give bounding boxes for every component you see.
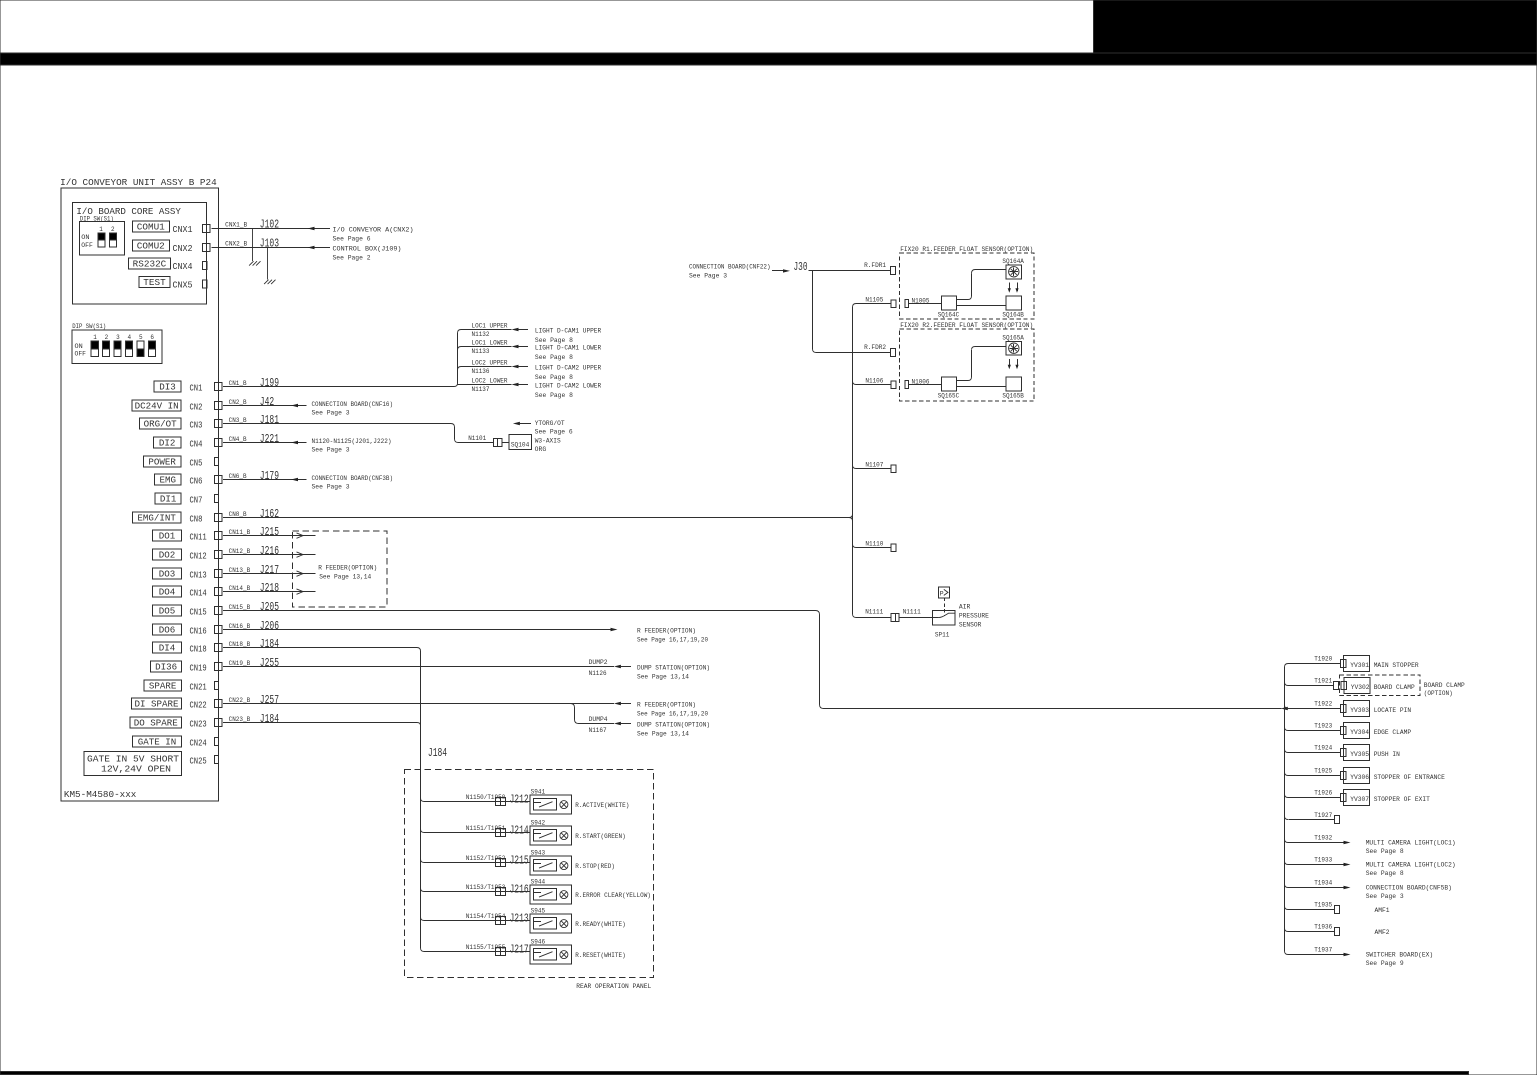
connector N1005 (905, 300, 909, 308)
svg-text:J218: J218 (260, 582, 279, 595)
sensor SQ104 box (509, 435, 532, 450)
svg-text:CN8_B: CN8_B (229, 511, 247, 518)
svg-text:DUMP4: DUMP4 (589, 716, 608, 723)
connector CN7 (214, 495, 218, 503)
connector N1111 (891, 614, 899, 622)
wire N1105 branch (853, 304, 857, 308)
svg-text:J216: J216 (510, 883, 529, 896)
dip switch S1 (2-pos) outline (80, 222, 125, 255)
svg-text:N1110: N1110 (865, 541, 883, 548)
sensor SQ164A symbol (1006, 265, 1021, 279)
svg-text:J214: J214 (510, 824, 529, 837)
svg-text:CN14: CN14 (190, 587, 208, 598)
connector N1154/T1954 (496, 917, 506, 925)
svg-text:ON: ON (81, 234, 90, 241)
label box DI4 (CN18) (152, 642, 181, 653)
dashed box YV302 option (1339, 675, 1420, 696)
connector N1110 (891, 544, 896, 552)
arrow J206 (611, 628, 618, 631)
label box ORG/OT (CN3) (139, 418, 181, 429)
svg-text:J212: J212 (510, 793, 529, 806)
svg-text:R.STOP(RED): R.STOP(RED) (575, 863, 615, 870)
svg-text:OFF: OFF (75, 350, 87, 357)
wire SQ165C to SQ165A (957, 380, 969, 382)
arrow J215 (297, 533, 304, 536)
svg-text:CN19: CN19 (190, 662, 207, 673)
svg-text:I/O CONVEYOR UNIT ASSY B P24: I/O CONVEYOR UNIT ASSY B P24 (60, 178, 217, 188)
wire J213 branch (N1154/T1954) (421, 917, 425, 921)
valve YV301 box (1344, 656, 1370, 672)
arrow J30 (772, 270, 784, 272)
svg-text:R.RESET(WHITE): R.RESET(WHITE) (575, 952, 625, 959)
wire N1101 to SQ104 (502, 442, 509, 444)
valve connector YV301 (1341, 659, 1346, 667)
svg-text:DO1: DO1 (159, 531, 176, 541)
svg-text:CN23: CN23 (190, 718, 207, 729)
svg-text:LIGHT D-CAM2 LOWER: LIGHT D-CAM2 LOWER (535, 383, 602, 390)
connector CN4 (214, 439, 222, 447)
wire T1927 (1285, 816, 1289, 820)
svg-text:CN3: CN3 (190, 419, 203, 430)
label box DO1 (CN11) (152, 530, 181, 541)
svg-text:CN4: CN4 (190, 438, 203, 449)
connector N1106 (891, 381, 896, 389)
wire J221 (CN4) (223, 442, 306, 444)
svg-text:MAIN STOPPER: MAIN STOPPER (1374, 662, 1419, 669)
wire T1925 run (1288, 775, 1341, 777)
svg-text:OFF: OFF (81, 242, 93, 249)
svg-text:DUMP2: DUMP2 (589, 659, 608, 666)
dip switch S1 (6-pos) outline (72, 330, 162, 363)
valve connector YV304 (1341, 726, 1346, 734)
connector N1151/T1951 (496, 829, 506, 837)
label box POWER (CN5) (143, 456, 181, 467)
svg-text:DC24V IN: DC24V IN (135, 401, 179, 411)
svg-text:CN4_B: CN4_B (229, 436, 247, 443)
svg-text:CN16: CN16 (190, 625, 207, 636)
connector R.FDR2 (891, 349, 896, 357)
lamp R.START(GREEN) (560, 832, 568, 840)
svg-text:See Page 8: See Page 8 (1366, 848, 1404, 855)
wire T1932 (1285, 839, 1289, 843)
label box DI3 (CN1) (154, 381, 181, 392)
svg-text:T1921: T1921 (1314, 678, 1332, 685)
arrow YTORG/OT (513, 422, 520, 425)
connector N1101 (494, 439, 502, 447)
wire J214 branch (N1151/T1951) (421, 829, 425, 833)
wire R.FDR2 drop (812, 271, 814, 350)
arrow J42 (291, 404, 298, 407)
svg-text:R FEEDER(OPTION): R FEEDER(OPTION) (637, 627, 696, 634)
connector CN18 (214, 644, 222, 652)
wire T1937 run (1288, 954, 1345, 956)
svg-text:See Page 3: See Page 3 (1366, 893, 1404, 900)
svg-text:CN22: CN22 (190, 699, 207, 710)
svg-text:POWER: POWER (148, 457, 176, 467)
svg-text:YV304: YV304 (1350, 729, 1369, 736)
lamp R.RESET(WHITE) (560, 951, 568, 959)
svg-text:REAR OPERATION PANEL: REAR OPERATION PANEL (576, 983, 651, 990)
wire branch LOC1 UPPER (458, 330, 462, 334)
svg-text:SQ164A: SQ164A (1002, 258, 1024, 265)
svg-text:CN3_B: CN3_B (229, 417, 247, 424)
svg-text:BOARD CLAMP: BOARD CLAMP (1424, 682, 1465, 689)
wire T1933 (1285, 861, 1289, 865)
connector N1006 (905, 381, 909, 389)
lamp R.ERROR CLEAR(YELLOW) (560, 891, 568, 899)
svg-text:SQ164C: SQ164C (938, 312, 960, 319)
svg-text:AMF1: AMF1 (1375, 907, 1390, 914)
connector CN15 (214, 607, 222, 615)
svg-text:GATE IN: GATE IN (138, 737, 177, 747)
wire J217 into R FEEDER option (223, 573, 315, 575)
pressure switch SP11 box (933, 610, 955, 625)
svg-text:See Page 3: See Page 3 (312, 410, 350, 417)
svg-text:CNX1: CNX1 (173, 224, 193, 235)
wire J217 branch (N1155/T1955) (421, 948, 425, 952)
wire T1934 (1285, 884, 1289, 888)
wire T1935 run (1288, 909, 1335, 911)
svg-text:LIGHT D-CAM1 UPPER: LIGHT D-CAM1 UPPER (535, 328, 602, 335)
connector T1927 (1335, 815, 1340, 823)
connector N1155/T1955 (496, 948, 506, 956)
svg-text:N1167: N1167 (589, 727, 607, 734)
connector CN1 (214, 383, 222, 391)
svg-text:J179: J179 (260, 470, 279, 483)
svg-text:J102: J102 (260, 219, 279, 232)
svg-text:CONTROL BOX(J109): CONTROL BOX(J109) (333, 245, 402, 252)
lamp R.READY(WHITE) (560, 920, 568, 928)
svg-text:CN6: CN6 (190, 475, 203, 486)
pushbutton S941 (R.ACTIVE(WHITE)) (530, 795, 571, 814)
arrow T1932 (1344, 841, 1351, 844)
bus T19xx vertical (1284, 667, 1286, 951)
wire T1925 (1285, 772, 1289, 776)
svg-text:12V,24V OPEN: 12V,24V OPEN (101, 765, 171, 775)
wire SQ164C to SQ164B (957, 305, 1007, 307)
svg-text:DI3: DI3 (159, 382, 176, 392)
svg-text:DUMP STATION(OPTION): DUMP STATION(OPTION) (637, 664, 710, 671)
svg-text:T1937: T1937 (1314, 947, 1332, 954)
label box GATE IN 5V SHORT / 12V,24V OPEN (CN25) (84, 752, 182, 776)
connector CN13 (214, 570, 222, 578)
wire T1920 (1285, 664, 1289, 668)
svg-text:SENSOR: SENSOR (959, 622, 982, 629)
svg-text:BOARD CLAMP: BOARD CLAMP (1374, 684, 1415, 691)
wire T1922 (1285, 705, 1289, 709)
svg-text:SPARE: SPARE (149, 681, 177, 691)
svg-text:N1126: N1126 (589, 670, 607, 677)
svg-text:T1934: T1934 (1314, 880, 1332, 887)
pressure symbol box (938, 587, 949, 598)
svg-text:YV305: YV305 (1350, 751, 1369, 758)
black footer rule (0, 1071, 1469, 1074)
svg-text:PRESSURE: PRESSURE (959, 613, 989, 620)
valve YV304 box (1344, 723, 1370, 739)
svg-text:LIGHT D-CAM2 UPPER: LIGHT D-CAM2 UPPER (535, 365, 602, 372)
svg-text:SQ104: SQ104 (511, 442, 530, 449)
wire T1926 run (1288, 797, 1341, 799)
connector CN14 (214, 588, 222, 596)
wire T1934 run (1288, 887, 1345, 889)
wire N1005 to SQ164C (909, 303, 942, 305)
svg-text:LOC2 LOWER: LOC2 LOWER (472, 378, 508, 385)
wire N1111 to SP11 (899, 617, 932, 619)
connector T1921 (1334, 681, 1339, 689)
svg-text:See Page 6: See Page 6 (333, 235, 371, 242)
svg-text:See Page 16,17,19,20: See Page 16,17,19,20 (637, 711, 708, 718)
dashed box REAR OPERATION PANEL (405, 770, 654, 978)
arrow to I/O CONVEYOR A (308, 227, 315, 230)
wire CNX1 ground branch (252, 229, 254, 262)
wire J199 (CN1) to LOC junction (223, 386, 454, 388)
svg-text:CONNECTION BOARD(CNF3B): CONNECTION BOARD(CNF3B) (312, 475, 394, 482)
wire J162 (CN8) to N11xx bus (223, 517, 851, 519)
svg-text:LOC1 LOWER: LOC1 LOWER (472, 340, 508, 347)
svg-text:J184: J184 (260, 638, 279, 651)
wire J215 into R FEEDER option (223, 535, 315, 537)
wire J215 branch (N1152/T1952) (421, 859, 425, 863)
svg-text:J215: J215 (510, 854, 529, 867)
connector CN3 (214, 420, 222, 428)
svg-text:CN2_B: CN2_B (229, 399, 247, 406)
svg-text:See Page 8: See Page 8 (535, 392, 573, 399)
dip switch S1 switches (81, 226, 116, 249)
svg-text:J184: J184 (260, 713, 279, 726)
connector CNX1 (202, 225, 210, 233)
svg-text:N1111: N1111 (865, 609, 883, 616)
connector CN2 (214, 402, 222, 410)
connector N1153/T1953 (496, 888, 506, 896)
valve connector YV305 (1341, 748, 1346, 756)
label box RS232C (129, 258, 171, 270)
connector CN23 (214, 719, 222, 727)
svg-text:R.ACTIVE(WHITE): R.ACTIVE(WHITE) (575, 802, 629, 809)
sensor SQ165A symbol (1006, 341, 1021, 355)
svg-text:LOCATE PIN: LOCATE PIN (1374, 707, 1412, 714)
svg-text:CN15_B: CN15_B (229, 604, 251, 611)
svg-text:CN7: CN7 (190, 494, 203, 505)
valve YV303 box (1344, 701, 1370, 717)
svg-text:3: 3 (116, 334, 120, 341)
svg-text:CNX2: CNX2 (173, 243, 193, 254)
label box DO5 (CN15) (152, 605, 181, 616)
connector T1936 (1335, 927, 1340, 935)
svg-text:N1111: N1111 (903, 609, 921, 616)
svg-text:See Page 9: See Page 9 (1366, 960, 1404, 967)
arrow T1933 (1344, 863, 1351, 866)
label box EMG (CN6) (154, 474, 181, 485)
wire T1923 run (1288, 730, 1341, 732)
svg-text:CN1_B: CN1_B (229, 380, 247, 387)
svg-text:See Page 3: See Page 3 (689, 273, 727, 280)
svg-text:ON: ON (75, 343, 84, 350)
svg-text:2: 2 (111, 226, 115, 233)
svg-text:MULTI CAMERA LIGHT(LOC2): MULTI CAMERA LIGHT(LOC2) (1366, 861, 1456, 868)
svg-text:R.ERROR CLEAR(YELLOW): R.ERROR CLEAR(YELLOW) (575, 892, 651, 899)
connector N1152/T1952 (496, 859, 506, 867)
connector CN5 (214, 458, 218, 466)
svg-text:See Page 16,17,19,20: See Page 16,17,19,20 (637, 637, 708, 644)
svg-text:J199: J199 (260, 377, 279, 390)
svg-text:T1933: T1933 (1314, 857, 1332, 864)
wire N1006 to SQ165C (909, 384, 942, 386)
svg-text:T1923: T1923 (1314, 723, 1332, 730)
valve connector YV302 (1341, 681, 1346, 689)
svg-text:CN11_B: CN11_B (229, 529, 251, 536)
wire T1932 run (1288, 842, 1345, 844)
wire SQ164C to SQ164A (957, 299, 969, 301)
arrow T1937 (1344, 953, 1351, 956)
svg-text:DI SPARE: DI SPARE (135, 699, 179, 709)
svg-text:T1927: T1927 (1314, 812, 1332, 819)
svg-text:STOPPER OF ENTRANCE: STOPPER OF ENTRANCE (1374, 774, 1445, 781)
svg-text:CN24: CN24 (190, 737, 208, 748)
label box DO SPARE (CN23) (130, 717, 182, 728)
black header bar (0, 53, 1537, 65)
wire J216 branch (N1153/T1953) (421, 888, 425, 892)
connector N1107 (891, 465, 896, 473)
svg-text:T1926: T1926 (1314, 790, 1332, 797)
valve connector YV306 (1341, 771, 1346, 779)
svg-text:R.FDR2: R.FDR2 (864, 344, 886, 351)
wire J206 (CN16) (223, 629, 611, 631)
dashed link SP11 to P symbol (944, 598, 946, 616)
wire T1926 (1285, 794, 1289, 798)
svg-text:YV306: YV306 (1350, 774, 1369, 781)
wire N1106 branch (853, 381, 857, 385)
wire T1937 (1285, 951, 1289, 955)
svg-text:4: 4 (128, 334, 132, 341)
svg-text:DIP SW(S1): DIP SW(S1) (72, 323, 106, 330)
wire J184 (CN23) merge (223, 722, 417, 724)
svg-text:J205: J205 (260, 601, 279, 614)
svg-text:T1932: T1932 (1314, 835, 1332, 842)
svg-text:YV307: YV307 (1350, 796, 1369, 803)
svg-text:YTORG/OT: YTORG/OT (535, 420, 565, 427)
svg-text:EMG/INT: EMG/INT (137, 513, 176, 523)
svg-text:J206: J206 (260, 620, 279, 633)
wire T1924 (1285, 749, 1289, 753)
svg-text:See Page 8: See Page 8 (535, 354, 573, 361)
wire J42 (CN2) (223, 405, 306, 407)
svg-text:T1920: T1920 (1314, 656, 1332, 663)
svg-text:N1136: N1136 (472, 368, 490, 375)
label box COMU2 (132, 240, 169, 252)
svg-text:CN11: CN11 (190, 531, 208, 542)
wire SQ165C to SQ165B (957, 386, 1007, 388)
wire J216 into R FEEDER option (223, 554, 315, 556)
pushbutton S945 (R.READY(WHITE)) (530, 914, 571, 933)
wire R.FDR1 (809, 270, 891, 272)
svg-text:CN18_B: CN18_B (229, 641, 251, 648)
svg-text:J181: J181 (260, 414, 279, 427)
beam arrows SQ165 (1008, 359, 1019, 369)
label box DI SPARE (CN22) (131, 698, 181, 709)
svg-text:SWITCHER BOARD(EX): SWITCHER BOARD(EX) (1366, 951, 1434, 958)
label box DO6 (CN16) (152, 624, 181, 635)
wire J212 branch (N1150/T1950) (421, 798, 425, 802)
label box COMU1 (132, 221, 169, 233)
svg-text:SQ165B: SQ165B (1002, 393, 1024, 400)
svg-text:CN12: CN12 (190, 550, 207, 561)
board I/O BOARD CORE ASSY outline (72, 202, 206, 304)
connector CNX2 (202, 244, 210, 252)
label box DC24V IN (CN2) (132, 400, 181, 411)
label box DO3 (CN13) (152, 568, 181, 579)
svg-text:J162: J162 (260, 508, 279, 521)
svg-text:ORG: ORG (535, 446, 547, 453)
connector CN11 (214, 532, 222, 540)
svg-text:R.READY(WHITE): R.READY(WHITE) (575, 921, 625, 928)
svg-text:CN12_B: CN12_B (229, 548, 251, 555)
svg-text:N1120-N1125(J201,J222): N1120-N1125(J201,J222) (312, 438, 392, 445)
svg-text:CNX5: CNX5 (173, 279, 193, 290)
svg-text:J255: J255 (260, 657, 279, 670)
svg-text:J42: J42 (260, 396, 274, 409)
sensor SQ164C box (942, 296, 957, 310)
svg-text:T1925: T1925 (1314, 768, 1332, 775)
svg-text:DI2: DI2 (159, 438, 176, 448)
connector CN21 (214, 682, 218, 690)
svg-text:TEST: TEST (143, 278, 166, 288)
dashed box R FEEDER(OPTION) (292, 531, 387, 607)
svg-text:T1924: T1924 (1314, 745, 1332, 752)
svg-text:W3-AXIS: W3-AXIS (535, 437, 561, 444)
label box DI2 (CN4) (153, 437, 181, 448)
connector T1935 (1335, 905, 1340, 913)
svg-text:RS232C: RS232C (133, 260, 167, 270)
svg-text:COMU2: COMU2 (137, 242, 165, 252)
pushbutton S943 (R.STOP(RED)) (530, 856, 571, 875)
arrow LOC2 LOWER (512, 383, 519, 386)
svg-text:MULTI CAMERA LIGHT(LOC1): MULTI CAMERA LIGHT(LOC1) (1366, 839, 1456, 846)
svg-text:N1132: N1132 (472, 331, 490, 338)
arrow J255 (614, 665, 621, 668)
svg-text:See Page 2: See Page 2 (333, 254, 371, 261)
valve connector YV307 (1341, 793, 1346, 801)
svg-text:SQ164B: SQ164B (1002, 312, 1024, 319)
svg-text:T1922: T1922 (1314, 701, 1332, 708)
svg-text:CN18: CN18 (190, 643, 207, 654)
svg-text:See Page 8: See Page 8 (535, 374, 573, 381)
wire N1111 branch (853, 614, 857, 618)
svg-text:J216: J216 (260, 545, 279, 558)
wire J205 (CN15) long run (223, 610, 816, 612)
arrow J217 (297, 571, 304, 574)
svg-text:CN8: CN8 (190, 513, 203, 524)
svg-text:R FEEDER(OPTION): R FEEDER(OPTION) (637, 701, 696, 708)
svg-text:1: 1 (93, 334, 97, 341)
svg-text:ORG/OT: ORG/OT (144, 419, 178, 429)
svg-text:CN2: CN2 (190, 401, 203, 412)
wire CNX2 ground branch (267, 248, 269, 280)
svg-text:DUMP STATION(OPTION): DUMP STATION(OPTION) (637, 721, 710, 728)
dip switch S1 (6-pos) switches (75, 334, 156, 358)
svg-text:N1137: N1137 (472, 386, 490, 393)
wire CNX2_B (J103) (211, 247, 330, 249)
wire J257 (CN22) (223, 703, 614, 705)
wire J181 (CN3) (223, 423, 451, 425)
junction fillet J162/bus down (849, 518, 853, 522)
svg-text:CN6_B: CN6_B (229, 473, 247, 480)
svg-text:See Page 8: See Page 8 (1366, 870, 1404, 877)
label box EMG/INT (CN8) (132, 512, 181, 523)
arrow LOC1 LOWER (512, 345, 519, 348)
svg-text:DO5: DO5 (159, 606, 176, 616)
svg-text:CN5: CN5 (190, 457, 203, 468)
svg-text:CN23_B: CN23_B (229, 716, 251, 723)
